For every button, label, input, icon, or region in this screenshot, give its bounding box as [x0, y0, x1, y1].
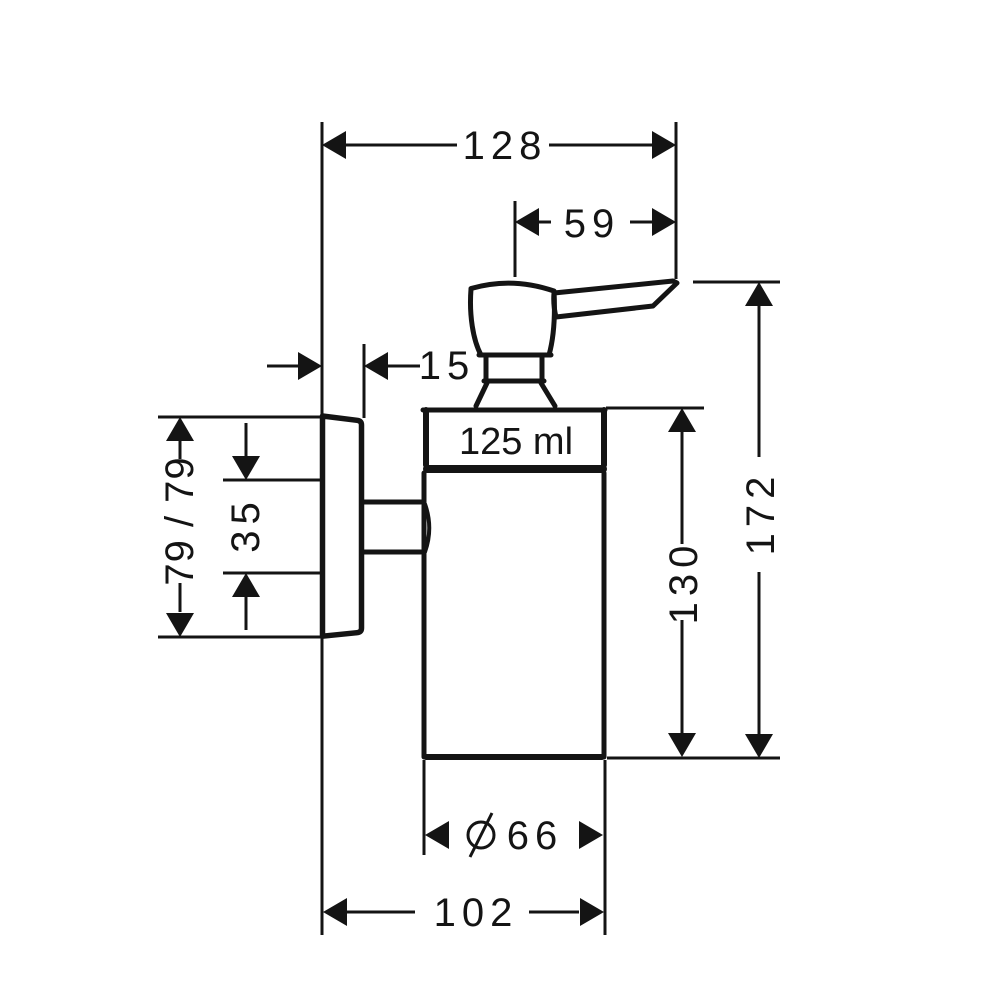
pump neck band bottom [484, 379, 544, 384]
svg-text:128: 128 [463, 124, 548, 168]
dim 102 line [347, 911, 415, 914]
svg-text:15: 15 [419, 344, 476, 388]
wall plate outline [323, 416, 362, 636]
dim d66 diameter symbol slash [470, 813, 492, 857]
extension line plate-top y=417 [158, 416, 321, 419]
extension line bottle-left-below x=424 [423, 760, 426, 855]
dim 130 arrow up [668, 408, 696, 432]
svg-text:102: 102 [434, 891, 519, 935]
dim d66 diameter symbol circle [468, 822, 494, 848]
svg-text:35: 35 [224, 496, 268, 553]
extension line hole-top y=480 [223, 479, 321, 482]
extension line left vertical x=322 [321, 122, 324, 935]
dim 79/79 arrow up [166, 417, 194, 441]
svg-text:79 / 79: 79 / 79 [158, 456, 202, 585]
dim 130 arrow down [668, 733, 696, 757]
dim 35 line bottom [245, 597, 248, 630]
bottle bottom [426, 754, 602, 760]
extension line bottle-top-right y=408 [606, 407, 704, 410]
dim 59 arrow right [652, 208, 676, 236]
dim 59 line [539, 221, 551, 224]
svg-text:125 ml: 125 ml [459, 421, 573, 463]
dim 128 arrow right [652, 131, 676, 159]
svg-text:66: 66 [507, 814, 564, 858]
bracket arm bottom [362, 550, 421, 555]
dim 79/79 line [179, 441, 182, 459]
extension line bottle-bottom-right y=758 [607, 757, 780, 760]
pump head bottom edge [479, 353, 551, 358]
extension line plate-bottom y=637 [158, 636, 321, 639]
dim 59 arrow left [515, 208, 539, 236]
pump skirt [476, 383, 555, 406]
dim 130 line [681, 432, 684, 544]
dim 128 line [346, 144, 457, 147]
pump neck band sides [486, 357, 542, 381]
holder ring bulge [425, 504, 429, 552]
extension line pump center x=515 [514, 201, 517, 277]
dim 15 arrow pointing right at x=322 [298, 352, 322, 380]
extension line lever-tip-right y=282 [693, 281, 780, 284]
svg-text:130: 130 [662, 540, 706, 625]
bottle left wall [422, 473, 427, 757]
collar left edge [423, 410, 429, 465]
pump head body [470, 283, 554, 355]
collar top edge [423, 408, 605, 413]
dim d66 arrow right [579, 821, 603, 849]
extension line bottle-right-below x=605 [604, 760, 607, 935]
dim 15 line left [267, 365, 300, 368]
svg-text:59: 59 [564, 202, 621, 246]
bottle right wall [602, 473, 607, 757]
dim 172 arrow up [745, 282, 773, 306]
dim 102 arrow left [323, 898, 347, 926]
dim d66 arrow left [425, 821, 449, 849]
pump lever [554, 281, 677, 317]
collar bottom band [427, 465, 603, 473]
dim 172 line [758, 306, 761, 457]
extension line 15-right x=364 [363, 344, 366, 418]
extension line right vertical x=676 [675, 122, 678, 279]
bracket arm top [362, 500, 421, 505]
extension line hole-bottom y=573 [223, 572, 321, 575]
collar right edge [601, 410, 607, 465]
dim 35 arrow up at y=573 [232, 573, 260, 597]
dim 172 arrow down [745, 734, 773, 758]
svg-text:172: 172 [739, 471, 783, 556]
dim 79/79 arrow down [166, 613, 194, 637]
dim 128 arrow left [322, 131, 346, 159]
dim 15 line right [388, 365, 420, 368]
dim 35 line top [245, 423, 248, 456]
dim 102 arrow right [580, 898, 604, 926]
dim 35 arrow down at y=480 [232, 456, 260, 480]
dim 15 arrow pointing left at x=364 [364, 352, 388, 380]
